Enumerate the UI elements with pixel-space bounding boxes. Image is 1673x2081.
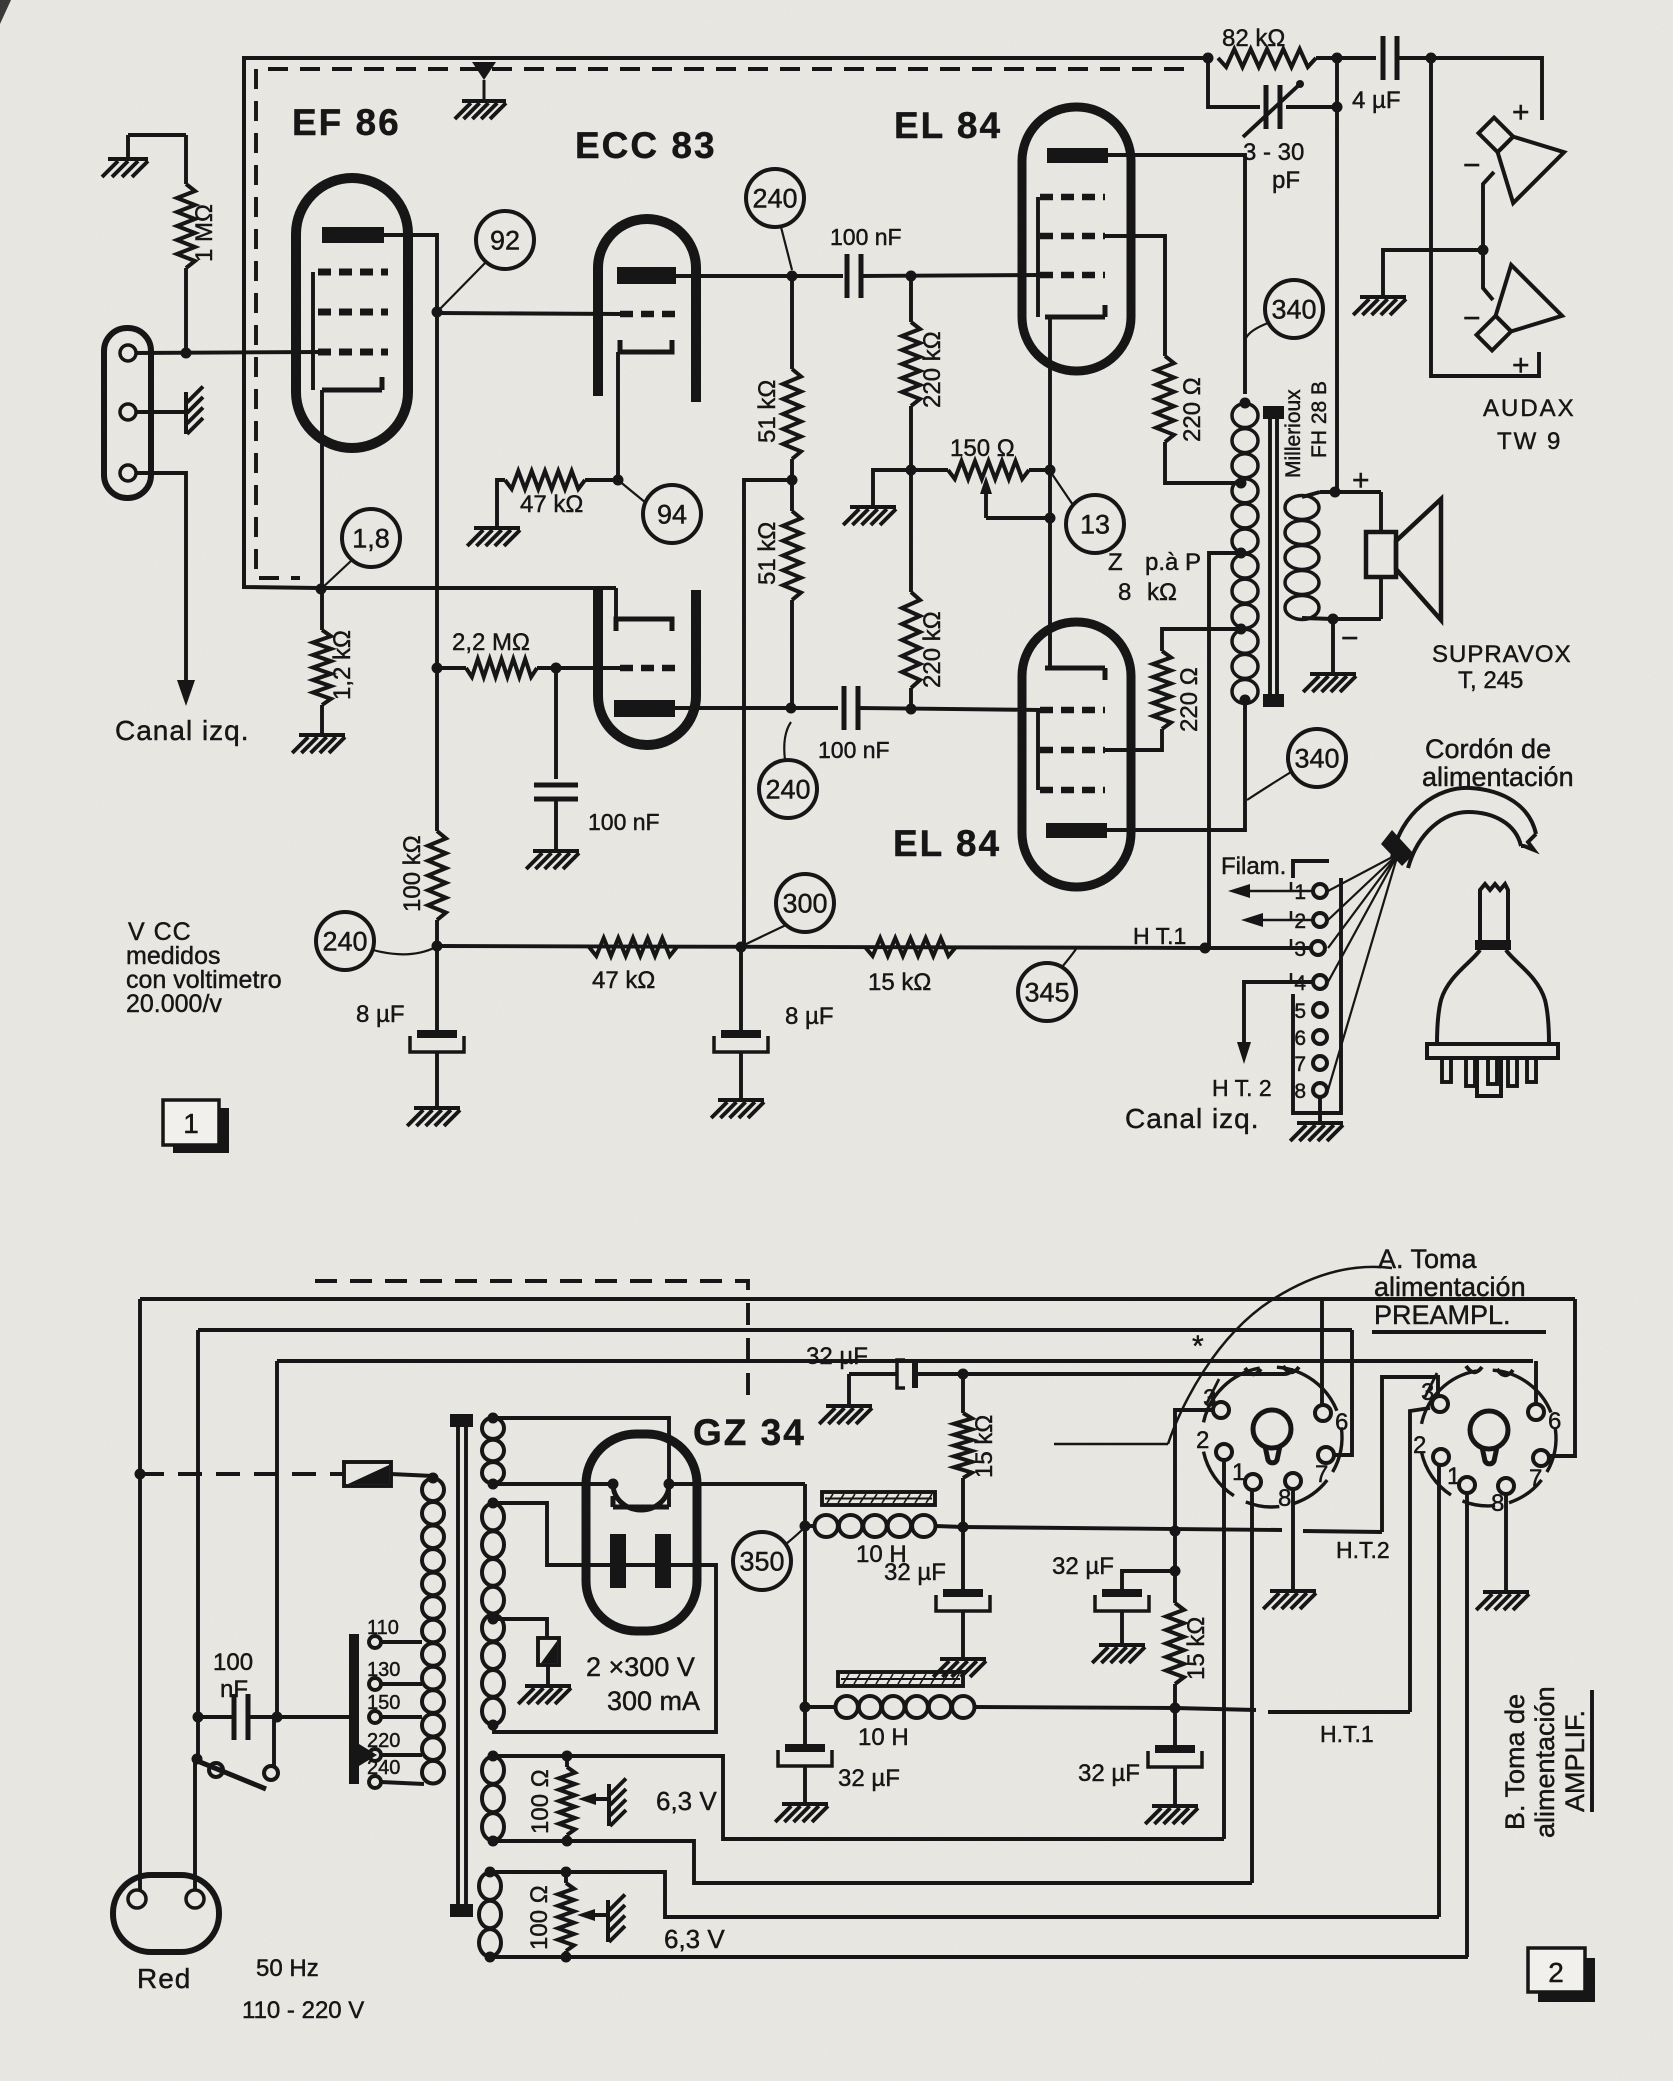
tube V5 GZ34 envelope xyxy=(586,1434,697,1631)
choke L2 core xyxy=(838,1672,963,1686)
ground C12 xyxy=(940,1657,986,1661)
node OPT plate bottom xyxy=(1240,695,1251,706)
pointer 92 xyxy=(437,261,487,312)
svg-text:150 Ω: 150 Ω xyxy=(950,435,1015,462)
EL84 bottom cathode xyxy=(1045,666,1105,671)
svg-text:32 µF: 32 µF xyxy=(1078,1760,1140,1787)
svg-text:1: 1 xyxy=(183,1108,199,1139)
EF86 internal grid bracket xyxy=(311,272,315,390)
dashed box preamp boundary xyxy=(315,1281,748,1402)
capacitor C5 trimmer 3-30 pF xyxy=(1208,58,1260,107)
svg-text:H T. 2: H T. 2 xyxy=(1212,1075,1272,1101)
svg-text:Cordón de: Cordón de xyxy=(1425,734,1551,764)
svg-text:51 kΩ: 51 kΩ xyxy=(754,380,781,443)
wire A pin1 heater xyxy=(1250,1490,1254,1883)
transformer T1 primary winding xyxy=(1232,404,1258,428)
resistor R13 47 kOhm rail xyxy=(589,938,677,956)
resistor R7 220 kOhm upper xyxy=(909,276,913,322)
voltage selector bar xyxy=(349,1634,359,1784)
ground 220k node xyxy=(873,470,911,505)
svg-text:8: 8 xyxy=(1118,579,1131,606)
node jack-1M junction xyxy=(181,348,192,359)
svg-text:20.000/v: 20.000/v xyxy=(126,990,222,1018)
svg-text:32 µF: 32 µF xyxy=(806,1343,868,1370)
wire jack pin3 down xyxy=(136,473,186,680)
potentiometer P3 100 Ohm xyxy=(490,1870,566,1874)
svg-text:3 - 30: 3 - 30 xyxy=(1243,139,1304,166)
svg-text:6: 6 xyxy=(1548,1408,1561,1435)
wire mains left verticals xyxy=(138,1299,142,1890)
svg-text:6: 6 xyxy=(1335,1409,1348,1436)
node EF86 cathode junction 1,8 xyxy=(316,584,327,595)
svg-text:220 kΩ: 220 kΩ xyxy=(919,331,946,408)
transformer T2 core xyxy=(456,1426,460,1904)
wire heater2 top line xyxy=(566,1872,1439,1917)
resistor R14 15 kOhm rail xyxy=(865,938,956,956)
terminal 4 xyxy=(1313,975,1327,989)
EF86 cathode xyxy=(322,388,382,393)
svg-text:32 µF: 32 µF xyxy=(1052,1553,1114,1580)
ground center tap xyxy=(525,1684,571,1688)
wire EL84 bottom plate to OPT xyxy=(1107,700,1245,830)
svg-text:2 ×300 V: 2 ×300 V xyxy=(586,1652,695,1682)
ground tweeter node xyxy=(1383,250,1483,295)
ground C7 xyxy=(414,1106,460,1110)
svg-text:130: 130 xyxy=(367,1659,400,1681)
wire A pin6 mains xyxy=(1320,1299,1324,1405)
svg-text:94: 94 xyxy=(657,499,687,529)
wire cathode node to ECC83 lower cathode xyxy=(321,586,616,590)
pointer 345 xyxy=(1062,949,1076,967)
svg-text:Millerioux: Millerioux xyxy=(1282,389,1305,478)
node 220k junction xyxy=(906,465,917,476)
node 4uF right xyxy=(1426,53,1437,64)
svg-text:2: 2 xyxy=(1294,910,1306,933)
ground C13 xyxy=(1099,1643,1145,1647)
node OPT screen tap lower xyxy=(1236,624,1247,635)
ground R4 xyxy=(474,526,520,530)
svg-text:15 kΩ: 15 kΩ xyxy=(1183,1617,1210,1680)
capacitor C3 100 nF grid leak xyxy=(554,668,558,779)
choke L1 10H winding xyxy=(815,1515,838,1537)
capacitor C6 4 uF xyxy=(1337,56,1376,60)
svg-text:2: 2 xyxy=(1196,1427,1209,1454)
svg-text:8: 8 xyxy=(1491,1490,1504,1517)
node HT1 dropper xyxy=(1170,1703,1181,1714)
ground C3 xyxy=(533,849,579,853)
svg-text:2: 2 xyxy=(1548,1957,1564,1988)
transformer T2 primary winding xyxy=(422,1479,444,1502)
terminal 2 xyxy=(1313,913,1327,927)
node lower plate xyxy=(786,703,797,714)
resistor R5 51 kOhm upper xyxy=(790,276,794,369)
pointer 350 xyxy=(786,1528,804,1544)
voltage circle 92 xyxy=(476,211,534,269)
T2 5V winding xyxy=(482,1418,504,1439)
ECC83 upper plate xyxy=(617,267,676,284)
svg-text:H.T.1: H.T.1 xyxy=(1320,1721,1374,1747)
wire HT2 rail xyxy=(963,1527,1282,1530)
svg-text:−: − xyxy=(1463,302,1481,335)
svg-text:32 µF: 32 µF xyxy=(838,1765,900,1792)
svg-text:6,3 V: 6,3 V xyxy=(664,1924,725,1954)
svg-text:−: − xyxy=(1341,622,1359,655)
wire ECC83 lower plate lead xyxy=(675,706,838,710)
wire C4 to EL84 bottom g1 xyxy=(858,708,1040,710)
EL84 bottom grid rows xyxy=(1040,707,1105,714)
node rail HT1 xyxy=(1200,943,1211,954)
wire EF86 plate node down rail xyxy=(435,312,439,831)
ground C10 xyxy=(826,1404,872,1408)
wire secondary bottom xyxy=(1302,618,1333,619)
ground C8 xyxy=(718,1098,764,1102)
plug pins xyxy=(1442,1058,1451,1082)
wire center tap to HT1 xyxy=(1209,553,1241,948)
node choke1 out xyxy=(958,1522,969,1533)
svg-text:7: 7 xyxy=(1529,1465,1542,1492)
svg-text:H T.1: H T.1 xyxy=(1133,923,1186,949)
capacitor C4 100 nF coupling lower xyxy=(842,686,847,730)
svg-text:3: 3 xyxy=(1294,938,1306,961)
svg-text:8 µF: 8 µF xyxy=(785,1003,834,1030)
svg-text:1: 1 xyxy=(1447,1463,1460,1490)
EL84 top grid rows xyxy=(1040,194,1105,201)
wire B pin2 heater xyxy=(1437,1465,1441,1917)
wire heater1 top line xyxy=(567,1756,1224,1839)
svg-text:PREAMPL.: PREAMPL. xyxy=(1374,1300,1511,1330)
svg-text:AMPLIF.: AMPLIF. xyxy=(1560,1710,1590,1812)
node secondary bottom xyxy=(1328,614,1339,625)
svg-text:alimentación: alimentación xyxy=(1422,762,1574,792)
svg-text:82 kΩ: 82 kΩ xyxy=(1222,25,1285,52)
svg-text:220: 220 xyxy=(367,1730,400,1752)
node OPT center tap xyxy=(1236,548,1247,559)
svg-text:+: + xyxy=(1512,349,1530,382)
node OPT plate top xyxy=(1240,398,1251,409)
ECC83 upper grid row xyxy=(620,311,676,318)
svg-text:100 nF: 100 nF xyxy=(830,224,902,250)
ground top shield xyxy=(472,62,496,80)
pointer 340 lower xyxy=(1247,772,1291,800)
node 220k bottom junction xyxy=(906,704,917,715)
node choke1 in xyxy=(800,1521,811,1532)
wire ECC83 upper cathode lead xyxy=(616,352,620,480)
tube V4 EL84 bottom envelope xyxy=(1022,622,1131,887)
filament arrow 1 xyxy=(1236,890,1313,893)
node choke2 in xyxy=(800,1702,811,1713)
ground R2 xyxy=(299,733,345,737)
input jack J1 xyxy=(104,328,151,498)
svg-text:240: 240 xyxy=(765,774,810,804)
wire preamp rail down xyxy=(435,829,439,833)
ground P3 wiper xyxy=(606,1900,610,1942)
svg-text:240: 240 xyxy=(752,183,797,213)
svg-text:300 mA: 300 mA xyxy=(607,1686,700,1716)
terminal 5 xyxy=(1313,1003,1327,1017)
svg-text:240: 240 xyxy=(367,1757,400,1779)
wire heater2 bottom line xyxy=(490,1955,1468,1959)
ECC83 lower plate xyxy=(614,700,675,717)
EF86 grid g3 row xyxy=(318,269,388,276)
node 32uF c xyxy=(1170,1566,1181,1577)
svg-text:1: 1 xyxy=(1232,1459,1245,1486)
node 15k top xyxy=(958,1369,969,1380)
svg-text:1: 1 xyxy=(1294,881,1306,904)
resistor R1 1 MOhm xyxy=(128,133,186,137)
socket B outline xyxy=(1422,1371,1477,1424)
svg-text:100 nF: 100 nF xyxy=(818,737,890,763)
EL84 top plate xyxy=(1047,148,1108,163)
svg-text:B. Toma de: B. Toma de xyxy=(1500,1694,1530,1830)
wire shield border solid xyxy=(244,58,1208,588)
EF86 plate (anode) xyxy=(322,227,384,243)
svg-text:110: 110 xyxy=(367,1617,399,1639)
terminal 1 xyxy=(1313,884,1327,898)
svg-text:pF: pF xyxy=(1272,167,1300,194)
svg-text:50 Hz: 50 Hz xyxy=(256,1955,319,1982)
svg-text:220 Ω: 220 Ω xyxy=(1179,377,1206,442)
wire GZ34 cathode vertical xyxy=(803,1484,807,1744)
svg-text:Z: Z xyxy=(1108,549,1123,576)
resistor R9 220 Ohm upper xyxy=(1156,356,1174,442)
plug flange xyxy=(1427,1044,1558,1058)
switch S1 xyxy=(192,1754,203,1765)
svg-text:4 µF: 4 µF xyxy=(1352,87,1401,114)
T2 HV winding 2x300V xyxy=(482,1504,504,1531)
wire HT2 to dropper xyxy=(1173,1531,1177,1603)
wire terminal 4 HT2 arrow xyxy=(1244,982,1313,1046)
wire selector feed xyxy=(277,1715,349,1719)
svg-text:13: 13 xyxy=(1080,509,1110,539)
node 2,2M right xyxy=(551,663,562,674)
pointer 94 xyxy=(618,480,646,503)
svg-text:1,8: 1,8 xyxy=(352,523,390,553)
svg-text:ECC 83: ECC 83 xyxy=(575,125,717,166)
wire EL84 bottom g2 to 220R xyxy=(1105,729,1162,750)
capacitor C7 8 uF xyxy=(435,946,439,1030)
node mains fuse line xyxy=(135,1469,146,1480)
wire secondary top xyxy=(1302,492,1320,497)
node 5V bottom xyxy=(488,1479,499,1490)
svg-text:8: 8 xyxy=(1278,1485,1291,1512)
node 82k right xyxy=(1332,53,1343,64)
svg-text:8 µF: 8 µF xyxy=(356,1001,405,1028)
svg-text:15 kΩ: 15 kΩ xyxy=(971,1415,998,1478)
svg-text:92: 92 xyxy=(490,225,520,255)
svg-text:Filam.: Filam. xyxy=(1221,853,1286,880)
wire mains rail 2 xyxy=(198,1328,1352,1332)
svg-text:350: 350 xyxy=(739,1546,784,1576)
svg-text:2,2 MΩ: 2,2 MΩ xyxy=(452,629,530,656)
svg-text:7: 7 xyxy=(1294,1053,1306,1076)
svg-text:p.à P: p.à P xyxy=(1145,549,1201,576)
cable band xyxy=(1381,830,1414,866)
socket B pins xyxy=(1432,1396,1448,1412)
node g1 EL84 top xyxy=(906,271,917,282)
voltage circle 240 rail xyxy=(316,912,374,970)
P3 wiper xyxy=(585,1913,606,1917)
svg-text:6: 6 xyxy=(1294,1027,1306,1050)
wire g2 node to ECC83 grid xyxy=(437,313,622,314)
wire C2 to EL84 g1 xyxy=(861,275,1040,276)
jack pin 2 xyxy=(120,404,136,420)
node 2,2M left xyxy=(432,663,443,674)
ground jack sleeve xyxy=(184,392,188,434)
svg-text:+: + xyxy=(1512,96,1530,129)
node tweeter mid xyxy=(1478,245,1489,256)
svg-text:Canal izq.: Canal izq. xyxy=(115,715,250,746)
wire A pin3 to HT2 xyxy=(1175,1410,1213,1531)
svg-text:47 kΩ: 47 kΩ xyxy=(520,491,583,518)
wire grid lower xyxy=(556,666,622,670)
wire A pin7 mains xyxy=(1334,1330,1352,1455)
terminal 7 xyxy=(1313,1056,1327,1070)
wire tweeter return xyxy=(1431,58,1539,376)
plug body xyxy=(1480,884,1508,944)
wire shield border dashed xyxy=(256,69,1184,578)
socket A pins xyxy=(1213,1402,1229,1418)
figure box 2 xyxy=(1538,1958,1595,2002)
arrow Canal izq. xyxy=(177,680,195,706)
svg-text:220 Ω: 220 Ω xyxy=(1176,667,1203,732)
svg-text:1,2 kΩ: 1,2 kΩ xyxy=(329,630,356,700)
voltage circle 1,8 xyxy=(342,509,400,567)
svg-text:Red: Red xyxy=(137,1963,191,1994)
terminal 3 xyxy=(1311,941,1325,955)
resistor R3 2,2 MOhm xyxy=(437,666,466,670)
socket B top pin hooks xyxy=(1466,1366,1482,1372)
voltage circle 300 xyxy=(776,874,834,932)
wire tweeter2 minus xyxy=(1483,250,1493,300)
HV center tap to ground xyxy=(493,1619,547,1638)
tube ECC83 lower triode xyxy=(598,590,696,745)
wire EL84 top g2 to 220R xyxy=(1105,236,1165,356)
socket B keyhole xyxy=(1470,1411,1508,1449)
voltage circle 13 xyxy=(1066,495,1124,553)
wire A pin8 ground xyxy=(1291,1489,1295,1589)
wire trimmer to secondary+ xyxy=(1335,58,1339,492)
svg-text:5: 5 xyxy=(1294,1000,1306,1023)
filament arrow 2 xyxy=(1249,919,1313,922)
speaker LS1 horn xyxy=(1396,499,1441,620)
EF86 grid g2 row xyxy=(318,309,388,316)
tube V3 EL84 top envelope xyxy=(1022,107,1131,371)
pointer 240 lower xyxy=(784,722,791,760)
EL84 bottom internal bracket xyxy=(1036,710,1040,790)
wire HV top to plates xyxy=(493,1503,716,1732)
GZ34 plate left xyxy=(610,1534,626,1588)
svg-text:FH 28 B: FH 28 B xyxy=(1308,381,1331,458)
svg-text:alimentación: alimentación xyxy=(1374,1272,1526,1302)
pointer 1,8 xyxy=(321,560,352,589)
wire 5V top to cathode bar xyxy=(493,1418,669,1507)
wire 51k node to HT rail xyxy=(744,480,792,947)
node 92 junction xyxy=(432,307,443,318)
node rail 240 xyxy=(432,941,443,952)
node P1 right xyxy=(1045,465,1056,476)
wire HT rail xyxy=(437,946,1205,948)
pointer to socket A xyxy=(1054,1443,1168,1446)
svg-text:110 - 220 V: 110 - 220 V xyxy=(242,1997,364,2024)
P2 wiper xyxy=(586,1797,607,1801)
capacitor C9 100 nF mains xyxy=(232,1694,237,1740)
tweeter LS3 Audax lower xyxy=(1459,265,1562,368)
GZ34 filament xyxy=(613,1484,669,1510)
wire EF86 plate to node 92 xyxy=(384,235,437,312)
svg-text:7: 7 xyxy=(1315,1461,1328,1488)
pointer 13 xyxy=(1052,474,1073,505)
wire jack pin1 to EF86 g1 xyxy=(136,352,318,353)
ground P2 wiper xyxy=(607,1784,611,1826)
speaker LS1 Supravox driver xyxy=(1366,532,1396,577)
svg-text:340: 340 xyxy=(1294,743,1339,773)
pointer 240 rail xyxy=(373,947,436,954)
node plate 240 xyxy=(787,271,798,282)
voltage circle 94 xyxy=(643,485,701,543)
resistor R4 47 kOhm xyxy=(505,471,585,489)
wire jack pin2 to ground xyxy=(136,410,186,414)
node 82k left xyxy=(1203,53,1214,64)
wire mains rail 3 xyxy=(277,1359,1533,1363)
svg-text:EL 84: EL 84 xyxy=(893,823,1001,864)
svg-text:100 kΩ: 100 kΩ xyxy=(399,835,426,912)
T2 heater winding 6.3V no2 xyxy=(479,1873,501,1900)
svg-text:GZ 34: GZ 34 xyxy=(693,1412,806,1453)
wire B pin7 mains xyxy=(1549,1299,1575,1456)
resistor R12 100 kOhm xyxy=(428,831,446,920)
tube V1 EF86 envelope xyxy=(296,178,408,448)
fuse F1 xyxy=(344,1462,391,1486)
ground C11 xyxy=(782,1802,828,1806)
figure box 1 xyxy=(173,1108,229,1153)
svg-text:2: 2 xyxy=(1413,1432,1426,1459)
wire HT1 rail xyxy=(975,1707,1175,1708)
node primary top xyxy=(428,1473,439,1484)
surge resistor center tap xyxy=(538,1638,559,1665)
svg-text:100: 100 xyxy=(213,1649,253,1676)
T2 heater winding 6.3V no1 xyxy=(482,1757,504,1784)
svg-text:340: 340 xyxy=(1271,294,1316,324)
wire heater1 bottom line xyxy=(493,1841,1252,1883)
terminal strip bracket xyxy=(1293,861,1329,878)
svg-text:100 nF: 100 nF xyxy=(588,809,660,835)
resistor R15 15 kOhm xyxy=(961,1374,965,1413)
svg-text:47 kΩ: 47 kΩ xyxy=(592,967,655,994)
pointer 240 upper xyxy=(781,227,792,270)
svg-text:TW 9: TW 9 xyxy=(1497,428,1562,455)
wire tweeter1 minus to node xyxy=(1483,172,1494,250)
jack pin 1 xyxy=(120,345,136,361)
transformer T1 secondary winding xyxy=(1285,496,1319,520)
wire to tweeter top xyxy=(1431,58,1542,120)
EL84 bottom plate xyxy=(1046,823,1107,838)
wire B pin6 mains xyxy=(1534,1361,1538,1404)
mains plug Red xyxy=(113,1875,219,1952)
EL84 top cathode xyxy=(1045,315,1105,320)
voltage circle 240 upper xyxy=(746,169,804,227)
svg-text:10 H: 10 H xyxy=(858,1724,909,1751)
node 5V top xyxy=(488,1413,499,1424)
svg-text:345: 345 xyxy=(1024,977,1069,1007)
pointer 340 upper xyxy=(1246,323,1268,338)
P1 wiper xyxy=(984,484,988,518)
svg-text:AUDAX: AUDAX xyxy=(1483,395,1576,422)
pointer 300 xyxy=(742,925,786,946)
wire rail to socket A pin5 xyxy=(963,1372,1284,1376)
node 94 junction xyxy=(613,475,624,486)
wire terminal 8 ground xyxy=(1318,1097,1322,1121)
voltage circle 340 upper xyxy=(1265,280,1323,338)
